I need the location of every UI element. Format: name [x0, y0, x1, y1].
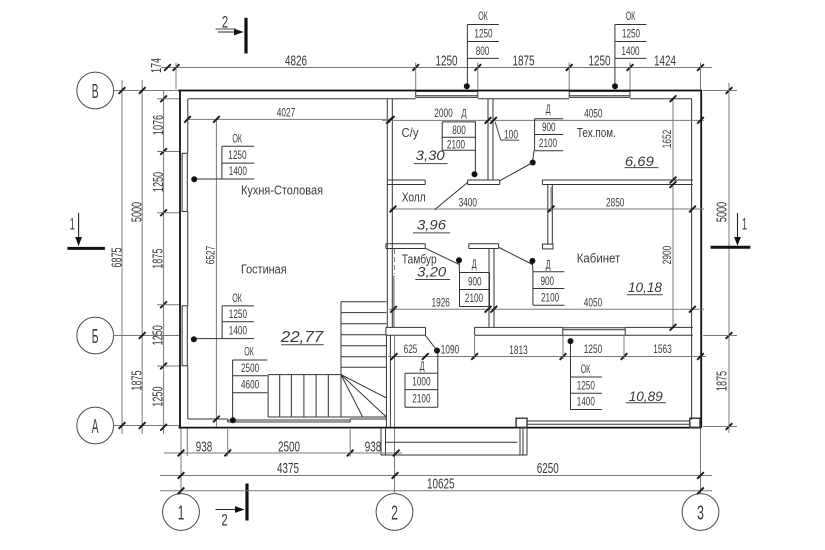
- svg-text:Гостиная: Гостиная: [241, 261, 287, 276]
- svg-text:1875: 1875: [513, 52, 535, 69]
- svg-text:1250: 1250: [150, 325, 167, 345]
- svg-text:1250: 1250: [229, 307, 247, 321]
- svg-text:1000: 1000: [412, 374, 430, 388]
- svg-text:2100: 2100: [412, 391, 430, 405]
- svg-text:ОК: ОК: [478, 9, 488, 23]
- svg-text:2100: 2100: [539, 136, 557, 150]
- svg-text:800: 800: [452, 123, 466, 137]
- svg-text:1: 1: [178, 503, 185, 525]
- svg-text:1875: 1875: [713, 371, 730, 391]
- svg-text:1250: 1250: [436, 52, 458, 69]
- svg-text:2000: 2000: [434, 106, 453, 120]
- svg-text:1400: 1400: [577, 395, 595, 409]
- svg-text:938: 938: [196, 438, 213, 455]
- svg-text:5000: 5000: [713, 202, 730, 222]
- svg-text:6,69: 6,69: [625, 154, 654, 169]
- svg-text:1875: 1875: [129, 370, 146, 390]
- svg-text:Тех.пом.: Тех.пом.: [577, 125, 616, 140]
- svg-text:1875: 1875: [150, 249, 167, 269]
- svg-text:1250: 1250: [474, 27, 492, 41]
- svg-text:10625: 10625: [427, 476, 455, 493]
- svg-text:1250: 1250: [577, 379, 595, 393]
- svg-text:1400: 1400: [621, 44, 639, 58]
- svg-text:3,20: 3,20: [417, 265, 446, 280]
- svg-text:3: 3: [697, 503, 704, 525]
- svg-text:800: 800: [476, 44, 490, 58]
- svg-text:1424: 1424: [654, 52, 676, 69]
- svg-text:5000: 5000: [129, 202, 146, 222]
- svg-text:ОК: ОК: [581, 362, 591, 376]
- svg-text:1090: 1090: [441, 343, 460, 357]
- svg-text:4375: 4375: [277, 460, 299, 477]
- svg-text:1250: 1250: [228, 148, 246, 162]
- svg-text:2100: 2100: [447, 137, 465, 151]
- svg-text:1: 1: [70, 214, 75, 233]
- svg-text:1250: 1250: [150, 172, 167, 192]
- svg-text:4826: 4826: [285, 52, 307, 69]
- svg-text:2900: 2900: [660, 246, 674, 265]
- svg-text:ОК: ОК: [232, 132, 242, 146]
- svg-text:174: 174: [148, 58, 165, 73]
- svg-text:4027: 4027: [277, 106, 296, 120]
- svg-text:1926: 1926: [432, 296, 451, 310]
- svg-text:10,18: 10,18: [628, 280, 662, 295]
- svg-text:С/у: С/у: [402, 125, 420, 140]
- svg-text:1250: 1250: [589, 52, 611, 69]
- svg-text:900: 900: [468, 275, 482, 289]
- svg-text:Д: Д: [546, 257, 551, 271]
- svg-text:1250: 1250: [584, 342, 603, 356]
- svg-text:1: 1: [742, 214, 747, 233]
- svg-text:4600: 4600: [241, 378, 259, 392]
- svg-text:Д: Д: [420, 359, 425, 373]
- svg-text:2500: 2500: [278, 438, 300, 455]
- svg-text:1813: 1813: [509, 343, 528, 357]
- svg-text:6527: 6527: [203, 246, 217, 265]
- svg-text:Д: Д: [546, 102, 551, 116]
- svg-text:1250: 1250: [622, 27, 640, 41]
- svg-text:ОК: ОК: [232, 291, 242, 305]
- svg-text:ОК: ОК: [626, 9, 636, 23]
- svg-text:1076: 1076: [150, 115, 167, 135]
- svg-text:6875: 6875: [108, 247, 125, 267]
- svg-text:Кухня-Столовая: Кухня-Столовая: [241, 182, 323, 197]
- svg-text:1400: 1400: [229, 164, 247, 178]
- svg-text:2500: 2500: [241, 361, 259, 375]
- svg-text:3400: 3400: [459, 195, 478, 209]
- svg-text:22,77: 22,77: [280, 329, 325, 346]
- svg-text:4050: 4050: [584, 107, 603, 121]
- svg-text:625: 625: [404, 342, 418, 356]
- svg-text:2100: 2100: [465, 291, 483, 305]
- svg-text:Д: Д: [472, 257, 477, 271]
- svg-text:900: 900: [542, 120, 556, 134]
- svg-text:1250: 1250: [150, 387, 167, 407]
- svg-text:6250: 6250: [537, 460, 559, 477]
- svg-text:1652: 1652: [660, 130, 674, 149]
- svg-text:ОК: ОК: [244, 345, 254, 359]
- svg-text:Холл: Холл: [402, 190, 426, 205]
- svg-text:10,89: 10,89: [629, 389, 663, 404]
- svg-text:3,96: 3,96: [417, 218, 446, 233]
- svg-text:4050: 4050: [584, 296, 603, 310]
- svg-text:2: 2: [391, 503, 398, 525]
- svg-text:Кабинет: Кабинет: [577, 251, 621, 266]
- svg-text:3,30: 3,30: [416, 148, 445, 163]
- svg-text:Б: Б: [92, 326, 99, 348]
- svg-text:Д: Д: [461, 108, 467, 120]
- svg-text:А: А: [92, 416, 99, 438]
- svg-text:2100: 2100: [541, 291, 559, 305]
- svg-text:1563: 1563: [653, 342, 672, 356]
- svg-text:900: 900: [541, 274, 555, 288]
- svg-text:В: В: [92, 81, 99, 103]
- svg-text:938: 938: [365, 438, 382, 455]
- svg-text:1400: 1400: [229, 323, 247, 337]
- svg-text:2: 2: [221, 510, 227, 529]
- svg-text:2850: 2850: [606, 195, 625, 209]
